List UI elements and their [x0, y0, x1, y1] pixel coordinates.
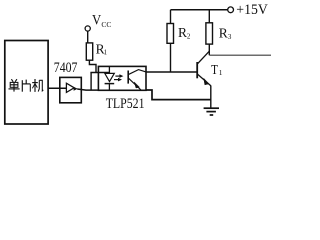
+15V terminal circle: [228, 7, 234, 13]
light arrows: [115, 75, 120, 77]
buffer 7407 box: [60, 77, 82, 102]
buffer triangle with output arrow: [66, 83, 74, 92]
svg-text:R: R: [219, 26, 228, 41]
svg-text:R: R: [178, 25, 187, 40]
svg-text:1: 1: [104, 48, 108, 56]
svg-text:V: V: [92, 12, 101, 28]
LED inside optocoupler: [108, 67, 110, 73]
microcontroller box: [5, 41, 48, 125]
svg-text:TLP521: TLP521: [106, 95, 145, 112]
svg-text:7407: 7407: [54, 59, 78, 76]
wire rail down to R2: [170, 10, 172, 24]
resistor R1: [86, 43, 92, 60]
片: [21, 80, 23, 92]
wire tee down to 7407 output: [90, 73, 92, 91]
resistor R2: [167, 24, 174, 44]
wire R1 to LED anode wire (jog): [89, 60, 96, 72]
resistor R3: [206, 23, 213, 44]
label 单片机 (drawn strokes): [9, 79, 44, 92]
svg-text:1: 1: [219, 68, 223, 77]
+15V rail: [171, 9, 228, 11]
wire R3 down to collector junction: [208, 44, 210, 55]
svg-text:2: 2: [187, 32, 191, 40]
optocoupler U1 box (TLP521): [98, 66, 146, 90]
svg-text:T: T: [211, 62, 218, 77]
机: [32, 82, 38, 84]
wire opto collector to T1 base: [146, 71, 197, 73]
wire opto emitter to ground (step): [146, 90, 211, 100]
ground: [204, 107, 219, 109]
wire rail down to R3: [208, 10, 210, 23]
svg-text:3: 3: [228, 33, 232, 41]
svg-text:CC: CC: [101, 20, 111, 29]
wire T1 emitter down to ground: [210, 86, 212, 109]
wire R2 to base wire: [170, 43, 172, 72]
wire Vcc to R1: [87, 31, 89, 43]
单: [11, 79, 17, 82]
wire MCU to 7407 input: [48, 87, 66, 89]
output wire right: [209, 54, 271, 56]
wire 7407 output to optocoupler: [77, 89, 98, 90]
Vcc terminal circle: [85, 26, 90, 31]
phototransistor: [127, 71, 129, 84]
svg-text:+15V: +15V: [236, 2, 268, 19]
transistor T1: [196, 62, 198, 78]
wire junction to LED (horizontal): [90, 72, 109, 74]
